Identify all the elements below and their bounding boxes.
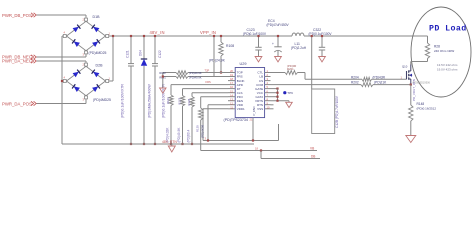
label D1B — [93, 15, 101, 19]
net label VB — [310, 146, 314, 150]
label C123 value — [243, 32, 267, 36]
svg-text:(PD)49.9K: (PD)49.9K — [189, 75, 202, 79]
svg-text:+: + — [272, 42, 274, 46]
pin number 18 bottom — [255, 147, 258, 151]
wire pin APD — [171, 84, 228, 86]
wire VNN bottom rail — [62, 143, 254, 145]
svg-text:D1B: D1B — [93, 15, 101, 19]
svg-text:R127: R127 — [177, 97, 181, 104]
svg-text:R204: R204 — [351, 75, 359, 79]
svg-text:TP9: TP9 — [287, 91, 293, 95]
wire bridge D2B positive feed — [109, 36, 113, 81]
wire PWR_DA_NEG — [37, 61, 87, 63]
wire VDD1 drop — [203, 109, 228, 141]
wire Q10 source down — [410, 85, 412, 105]
bridge D2B diode bottom-left — [72, 84, 80, 92]
IC U29 left pin 16 DT — [228, 85, 241, 91]
svg-text:PD Load: PD Load — [429, 24, 467, 34]
resistor R148 — [409, 105, 413, 121]
svg-text:240 Ohm /40W: 240 Ohm /40W — [434, 49, 454, 53]
bridge D2B diode top-right — [92, 70, 100, 78]
wire R202 to source node — [373, 84, 411, 86]
label R202 value — [374, 81, 387, 85]
bridge D2B pin 2 terminal — [83, 63, 88, 67]
junction D4 top — [143, 35, 145, 37]
junction C322 — [321, 35, 323, 37]
svg-text:R202: R202 — [351, 81, 359, 85]
pin number 3 bottom — [205, 137, 207, 141]
capacitor C121 — [128, 36, 134, 144]
IC U29 body — [235, 68, 264, 118]
IC U29 right pin 8 VRTN — [255, 97, 271, 103]
svg-text:48V_RTN: 48V_RTN — [162, 140, 177, 144]
junction R126 bottom — [170, 143, 172, 145]
capacitor C322 — [319, 36, 325, 57]
label D1B value — [89, 51, 107, 55]
svg-text:R128: R128 — [187, 98, 191, 105]
wire bridge D2B negative stub — [62, 80, 63, 82]
TVS diode D4 — [141, 36, 147, 144]
wire IC thermal pad stub — [252, 118, 254, 141]
label D2B value — [93, 98, 111, 102]
wire R28 to Q10 drain — [411, 59, 428, 65]
bridge D2B pin 1 terminal — [106, 77, 111, 83]
junction R127 bottom — [181, 143, 183, 145]
wire GATE drive — [305, 78, 362, 80]
wire COM jog — [271, 84, 294, 86]
wire kelvin return — [201, 150, 317, 152]
pin number 1 gate — [401, 75, 403, 79]
bridge D2B diode top-left — [73, 70, 81, 78]
IC U29 right pin 3 CS — [259, 77, 271, 83]
net label 48V_IN — [150, 30, 165, 35]
bridge D1B pin 4 terminal — [63, 31, 66, 38]
label R202 — [351, 81, 359, 85]
svg-text:FRS: FRS — [206, 80, 211, 84]
IC U29 right pin 5 GATE — [255, 85, 270, 91]
svg-text:C121: C121 — [125, 50, 129, 58]
wire PWR_DB_NEG — [37, 54, 87, 57]
label EC4 — [268, 19, 275, 23]
label R28 — [434, 45, 440, 49]
wire rail feed to pin FRS — [213, 36, 215, 77]
port PWR_DA_NEG — [2, 59, 36, 64]
IC U29 left pin 20 TOP — [228, 69, 243, 75]
junction thermal pad — [252, 139, 254, 141]
bridge D2B pin 3 terminal — [83, 96, 88, 102]
svg-text:T2P: T2P — [205, 69, 210, 73]
IC U29 right pin 10 VSS — [257, 105, 270, 111]
resistor R128 — [190, 93, 194, 144]
svg-text:(PD)47uF/450V: (PD)47uF/450V — [267, 23, 290, 27]
label R148 value — [417, 107, 437, 111]
junction GAT2 bus — [276, 96, 278, 98]
label R28 value — [434, 49, 454, 53]
bridge D2B diode bottom-right — [92, 84, 100, 92]
label U29 part number — [224, 118, 248, 122]
wire right ground bus — [277, 89, 279, 101]
port PWR_DA_POS — [2, 101, 36, 106]
junction rail feed — [213, 35, 215, 37]
label R108 value — [209, 58, 226, 62]
ground VNN — [168, 144, 175, 152]
junction C121 top — [130, 35, 132, 37]
resistor R202 — [361, 83, 373, 87]
label R108 — [226, 44, 234, 48]
resistor R127 — [180, 89, 184, 144]
wire VSS pin stub — [271, 108, 274, 110]
IC U29 thermal PowerPAD pin 21 — [250, 107, 256, 122]
svg-text:PD_VOUT_RTN: PD_VOUT_RTN — [412, 79, 416, 101]
bridge D2B pin 4 terminal — [63, 76, 66, 83]
label R139 rotated — [196, 125, 200, 132]
wire pin PFO — [201, 96, 228, 98]
label R204 — [351, 75, 359, 79]
resistor R28 — [425, 43, 429, 59]
label D4 value rotated — [148, 84, 152, 118]
IC U29 left pin 18 BLNK — [228, 77, 245, 83]
label Q10 — [402, 64, 408, 68]
junction R108 pin TOP — [220, 71, 222, 73]
label C123 — [247, 28, 255, 32]
IC U29 right pin 9 RTN — [257, 101, 271, 107]
label C122 rotated — [158, 50, 162, 58]
svg-text:13.5V 242 ohm: 13.5V 242 ohm — [437, 63, 458, 67]
net label FRS — [206, 80, 211, 84]
label Q10 part — [413, 82, 431, 85]
wire PWR_DA_POS — [37, 99, 87, 103]
wire VDD drop — [208, 105, 228, 141]
svg-text:(PD)TPS23734: (PD)TPS23734 — [224, 118, 248, 122]
wire GATE pin stub — [271, 88, 278, 90]
capacitor EC4 — [272, 36, 282, 57]
svg-text:R126: R126 — [166, 97, 170, 104]
svg-text:(PD)4K99: (PD)4K99 — [201, 124, 205, 138]
IC U29 right pin 1 CTL — [257, 69, 270, 75]
label R127 rotated — [177, 97, 181, 104]
wire pin DT — [183, 88, 229, 90]
bridge D1B diode top-left — [73, 25, 81, 33]
svg-text:(PD)63.4: (PD)63.4 — [187, 130, 191, 143]
diode bridge D2B outline — [67, 66, 106, 95]
inductor L11 — [292, 33, 304, 36]
label D2B — [96, 64, 104, 68]
junction R128 bottom — [191, 143, 193, 145]
load option text line 1 — [437, 63, 458, 67]
wire rect feed — [311, 36, 313, 89]
svg-text:R139: R139 — [196, 125, 200, 132]
wire VPP main rail — [109, 35, 428, 37]
label R091 — [159, 75, 201, 79]
wire GAT2 pin stub — [271, 96, 278, 98]
wire sense resistors to ground — [162, 73, 164, 89]
label L11 value — [291, 46, 307, 50]
svg-text:D04: D04 — [138, 50, 142, 56]
resistor R108 — [219, 36, 223, 73]
resistor R092 series pin TOP — [163, 71, 228, 75]
junction Q10 source — [410, 84, 412, 86]
label EC4 value — [267, 23, 290, 27]
IC U29 left pin 13 DEN — [228, 97, 243, 103]
wire rail into load — [427, 36, 429, 43]
diode bridge D1B outline — [67, 21, 106, 50]
svg-text:VDD1: VDD1 — [237, 107, 245, 111]
wire gate to Q10 — [372, 78, 407, 80]
IC U29 left pin 19 FRS — [228, 73, 243, 79]
load option text line 2 — [437, 67, 458, 71]
svg-text:(PD)0.16/2512: (PD)0.16/2512 — [417, 107, 437, 111]
resistor R139 — [199, 97, 203, 151]
label R126 rotated — [166, 97, 170, 104]
svg-text:(PD)24.9K: (PD)24.9K — [209, 58, 226, 62]
IC U29 left pin 17 APD — [228, 81, 244, 87]
wire CTL with resistor R201 — [271, 71, 306, 80]
bridge D1B diode top-right — [92, 25, 100, 33]
junction RTN bus — [276, 100, 278, 102]
svg-text:VPP_IN: VPP_IN — [200, 30, 216, 35]
junction D4 bottom — [143, 143, 145, 145]
junction rail/D2B feed — [112, 35, 114, 37]
label R092 — [159, 71, 201, 75]
svg-text:48V_IN: 48V_IN — [150, 30, 165, 35]
ground EC4 — [275, 57, 282, 62]
bridge D1B pin 3 terminal — [83, 51, 88, 57]
ground PD load — [406, 136, 416, 143]
label R139 value rotated — [201, 124, 205, 138]
svg-text:C122: C122 — [158, 50, 162, 58]
svg-text:R108: R108 — [226, 44, 234, 48]
junction rect feed — [311, 35, 313, 37]
wire VNN left rail — [61, 36, 63, 144]
label C322 — [313, 28, 321, 32]
junction kelvin branch — [260, 149, 262, 151]
capacitor C123 — [255, 36, 261, 57]
net label sense rotated — [412, 79, 416, 101]
svg-text:(PD)0.1uF/100V/X7R: (PD)0.1uF/100V/X7R — [162, 84, 166, 118]
bridge D1B pin 1 terminal — [106, 32, 111, 38]
svg-text:19.0V 423 ohm: 19.0V 423 ohm — [437, 67, 458, 71]
PD load ellipse — [411, 7, 471, 97]
label C12B rotated — [335, 95, 339, 128]
capacitor C122 — [152, 36, 158, 144]
wire VCC pin stub — [271, 92, 278, 94]
label C322 value — [309, 32, 333, 36]
svg-text:(PD)49.9K: (PD)49.9K — [189, 71, 202, 75]
junction sense wires — [162, 75, 164, 77]
label R126 value rotated — [166, 127, 170, 143]
junction GATE bus — [276, 88, 278, 90]
test point TP9 — [283, 91, 293, 95]
svg-text:Q10: Q10 — [402, 64, 408, 68]
svg-text:(PD)4MD25: (PD)4MD25 — [93, 98, 111, 102]
label R127 value rotated — [177, 127, 181, 143]
junction VDD drop — [207, 139, 209, 141]
IC U29 left pin 12 VDD — [228, 101, 244, 107]
junction VNN/D2B — [61, 80, 63, 82]
resistor R126 — [169, 85, 173, 144]
ground C322 — [319, 57, 326, 62]
IC U29 left pin 15 CLS — [228, 89, 243, 95]
svg-text:PWR_DA_POS: PWR_DA_POS — [2, 102, 32, 107]
bridge D1B diode bottom-right — [92, 39, 100, 47]
svg-text:R148: R148 — [417, 102, 425, 106]
label R128 rotated — [187, 98, 191, 105]
svg-text:C12B (PD)4.7uF/100V: C12B (PD)4.7uF/100V — [335, 95, 339, 128]
junction EC4 — [277, 35, 279, 37]
transistor Q10 — [407, 65, 413, 85]
IC U29 left pin 14 PFO — [228, 93, 244, 99]
label C121 rotated — [125, 50, 129, 58]
wire IC ground bus bottom — [203, 124, 279, 141]
wire COM to source — [293, 84, 361, 86]
junction VCC bus — [276, 92, 278, 94]
junction C121 bottom — [130, 143, 132, 145]
IC U29 right pin 4 COM — [256, 81, 270, 87]
IC U29 right pin 2 LB — [259, 73, 270, 79]
svg-text:(PD)2.2uH: (PD)2.2uH — [291, 46, 307, 50]
svg-text:(PD)4MD25: (PD)4MD25 — [89, 51, 107, 55]
ground C123 — [255, 57, 262, 62]
IC U29 right pin 6 VCC — [257, 89, 271, 95]
wire VRTN pin stub — [271, 100, 290, 102]
net label LB — [311, 154, 315, 158]
svg-text:DB: DB — [311, 154, 315, 158]
wire bridge D1B negative to VNN rail — [62, 35, 63, 37]
svg-text:U29: U29 — [240, 62, 247, 66]
net label VNN — [162, 140, 177, 144]
svg-text:(PD)21K: (PD)21K — [374, 81, 387, 85]
ground sense resistors — [160, 88, 167, 93]
svg-text:D2B: D2B — [96, 64, 104, 68]
svg-text:(PD)0.1uF/100V: (PD)0.1uF/100V — [243, 32, 267, 36]
junction C123 — [257, 35, 259, 37]
wire lower return — [261, 151, 320, 159]
wire R148 to ground — [410, 121, 412, 136]
IC U29 left pin 11 VDD1 — [228, 105, 245, 111]
bridge D1B diode bottom-left — [72, 39, 80, 47]
wire PWR_DB_POS — [37, 15, 87, 18]
svg-text:P_PAD: P_PAD — [252, 107, 256, 116]
svg-text:PWR_DB_POS: PWR_DB_POS — [2, 13, 32, 18]
svg-text:(PD)49.9K: (PD)49.9K — [177, 127, 181, 143]
label R148 — [417, 102, 425, 106]
svg-text:VB: VB — [310, 146, 314, 150]
wire RTN pin stub — [271, 104, 274, 106]
label R201 — [287, 64, 296, 71]
junction C122 bottom — [154, 143, 156, 145]
junction C122 top — [154, 35, 156, 37]
svg-text:(PD)0.1uF/100V/X7R: (PD)0.1uF/100V/X7R — [121, 84, 125, 118]
port PWR_DB_NEG — [2, 55, 36, 60]
label R128 value rotated — [187, 130, 191, 143]
net label T2P — [205, 69, 210, 73]
svg-text:VSS: VSS — [257, 107, 263, 111]
resistor R091 series pin FRS — [163, 75, 228, 79]
label D4 rotated — [138, 50, 142, 56]
svg-text:PWR_DA_NEG: PWR_DA_NEG — [2, 59, 33, 64]
net label VPP_IN — [200, 30, 216, 35]
svg-text:(PD)SMAJ58A/400W: (PD)SMAJ58A/400W — [148, 84, 152, 118]
resistor R204 — [362, 77, 372, 81]
label U29 — [240, 62, 247, 66]
bridge D1B pin 2 terminal — [83, 18, 88, 22]
label C121 value rotated — [121, 84, 125, 118]
label C122 value rotated — [162, 84, 166, 118]
svg-text:(PD)0R: (PD)0R — [287, 64, 296, 68]
label L11 — [295, 42, 301, 46]
port PWR_DB_POS — [2, 13, 36, 18]
label PD Load — [429, 24, 467, 34]
junction R108 rail — [220, 35, 222, 37]
load module C12B box — [312, 89, 335, 134]
ground right bus — [286, 101, 293, 108]
label R204 value — [373, 75, 386, 79]
wire pin CLS — [192, 92, 228, 94]
IC U29 right pin 7 GAT2 — [255, 93, 270, 99]
